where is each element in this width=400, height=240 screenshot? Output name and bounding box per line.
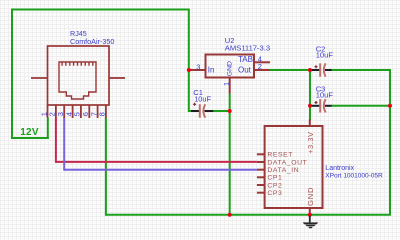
wire 12V net: bottom horizontal under label xyxy=(11,137,49,139)
svg-text:+3.3V: +3.3V xyxy=(306,131,315,153)
junction at bottom rail / XPort GND xyxy=(308,213,312,217)
wire DATA_OUT net horizontal to XPort xyxy=(56,161,257,163)
capacitor C1 left lead xyxy=(191,110,199,112)
module U1 pin +3.3V stub xyxy=(309,120,311,127)
wire 12V net: riser to RJ45 pin 1 xyxy=(47,118,49,140)
capacitor C1 plus plate xyxy=(199,104,201,117)
module U1 pin DATA_IN stub xyxy=(257,169,265,171)
wire GND net: C3 right to right bus xyxy=(331,105,390,107)
connector X1 pin 1 xyxy=(47,105,49,118)
svg-text:ComfoAir-350: ComfoAir-350 xyxy=(70,37,114,46)
capacitor C2 left lead xyxy=(312,69,320,71)
wire GND net: bottom rail xyxy=(106,214,391,216)
wire DATA_OUT net vertical from RJ45 pin 2 xyxy=(55,118,57,163)
wire DATA_IN net horizontal to XPort xyxy=(64,169,257,171)
wire 12V net: left vertical xyxy=(11,9,13,140)
capacitor C1 right lead xyxy=(205,110,214,112)
svg-text:CP1: CP1 xyxy=(267,175,282,182)
connector X1 pin 3 xyxy=(63,105,65,118)
svg-text:2: 2 xyxy=(258,62,262,71)
module U1 pin RESET stub xyxy=(257,153,265,155)
svg-text:10uF: 10uF xyxy=(316,90,334,99)
svg-text:TAB: TAB xyxy=(238,55,253,64)
junction at U2 input node xyxy=(187,68,191,72)
connector X1 pin 4 xyxy=(72,105,74,118)
capacitor C2 plus sign xyxy=(315,65,318,68)
svg-text:8: 8 xyxy=(98,112,107,116)
junction at bottom rail / C1 branch xyxy=(228,213,232,217)
module U1 pin DATA_OUT stub xyxy=(257,161,265,163)
wire DATA_IN net vertical from RJ45 pin 3 xyxy=(63,118,65,171)
svg-text:10uF: 10uF xyxy=(194,94,211,103)
svg-text:In: In xyxy=(208,66,215,75)
junction at C3 node xyxy=(308,104,312,108)
connector X1 pin 8 xyxy=(105,105,107,118)
svg-text:Lantronix: Lantronix xyxy=(325,165,354,172)
connector X1 RJ45 jack silhouette xyxy=(59,62,96,99)
wire U2 GND pin down to node xyxy=(229,94,231,112)
wire GND net: RJ45 pin 8 drop xyxy=(105,118,107,216)
svg-text:GND: GND xyxy=(306,187,315,206)
capacitor C3 curved plate xyxy=(324,99,326,112)
regulator U2 pin 1 (GND) stub xyxy=(229,78,231,94)
junction at C1 / U2 GND node xyxy=(228,109,232,113)
regulator U2 pin 2 (Out) stub xyxy=(254,69,270,71)
wire C1 right to U2 GND node xyxy=(213,110,230,112)
svg-text:DATA_IN: DATA_IN xyxy=(267,167,299,174)
svg-text:AMS1117-3.3: AMS1117-3.3 xyxy=(225,44,270,53)
junction at right bus C3 row xyxy=(388,104,392,108)
junction at C2 node xyxy=(308,68,312,72)
svg-text:CP3: CP3 xyxy=(267,190,282,197)
wire 12V net: vertical drop to U2 input xyxy=(188,9,190,112)
svg-text:CP2: CP2 xyxy=(267,182,282,189)
wire 12V net: top horizontal xyxy=(11,9,189,11)
capacitor C3 right lead xyxy=(325,105,332,107)
capacitor C2 plus plate xyxy=(319,63,321,76)
wire +3V3 net: C2 right to right bus xyxy=(331,69,391,71)
module U1 pin GND stub xyxy=(309,208,311,214)
svg-text:GND: GND xyxy=(226,61,233,76)
wire GND net: long vertical from C1 node to bottom rail xyxy=(229,111,231,215)
capacitor C2 curved plate xyxy=(324,63,326,76)
connector X1 shield pin right xyxy=(109,77,125,79)
svg-text:1: 1 xyxy=(222,82,231,86)
capacitor C1 curved plate xyxy=(203,104,205,117)
capacitor C3 left lead xyxy=(312,105,320,107)
svg-text:XPort 1001000-05R: XPort 1001000-05R xyxy=(325,173,383,180)
module U1 pin CP3 stub xyxy=(257,192,265,194)
svg-text:3: 3 xyxy=(196,62,200,71)
capacitor C2 right lead xyxy=(325,69,332,71)
ground symbol xyxy=(303,216,319,228)
module U1 Lantronix XPort body xyxy=(265,126,323,208)
connector X1 pin 7 xyxy=(97,105,99,118)
connector X1 RJ45 outer body xyxy=(48,46,110,105)
capacitor C1 plus sign xyxy=(193,103,196,106)
connector X1 pin 2 xyxy=(55,105,57,118)
regulator U2 pin 4 (TAB) stub xyxy=(254,61,270,63)
wire +3V3 net: U2 out to C2 node xyxy=(270,69,313,71)
wire GND net: right bus vertical xyxy=(389,69,391,215)
connector X1 pin 5 xyxy=(80,105,82,118)
capacitor C3 plus sign xyxy=(315,101,318,104)
svg-text:RESET: RESET xyxy=(267,152,293,159)
module U1 pin CP1 stub xyxy=(257,176,265,178)
regulator U2 pin 3 (In) stub xyxy=(190,69,206,71)
module U1 pin CP2 stub xyxy=(257,184,265,186)
svg-text:12V: 12V xyxy=(20,127,39,138)
wire +3V3 net: vertical C2 node to C3 node to XPort pin xyxy=(309,70,311,121)
svg-text:Out: Out xyxy=(238,66,252,75)
connector X1 pin 6 xyxy=(88,105,90,118)
wire GND net: C1 left corner segment xyxy=(188,110,192,112)
regulator U2 body xyxy=(206,55,255,78)
capacitor C3 plus plate xyxy=(319,99,321,112)
svg-text:DATA_OUT: DATA_OUT xyxy=(267,159,307,166)
connector X1 shield pin left xyxy=(31,77,48,79)
svg-text:10uF: 10uF xyxy=(316,51,334,60)
